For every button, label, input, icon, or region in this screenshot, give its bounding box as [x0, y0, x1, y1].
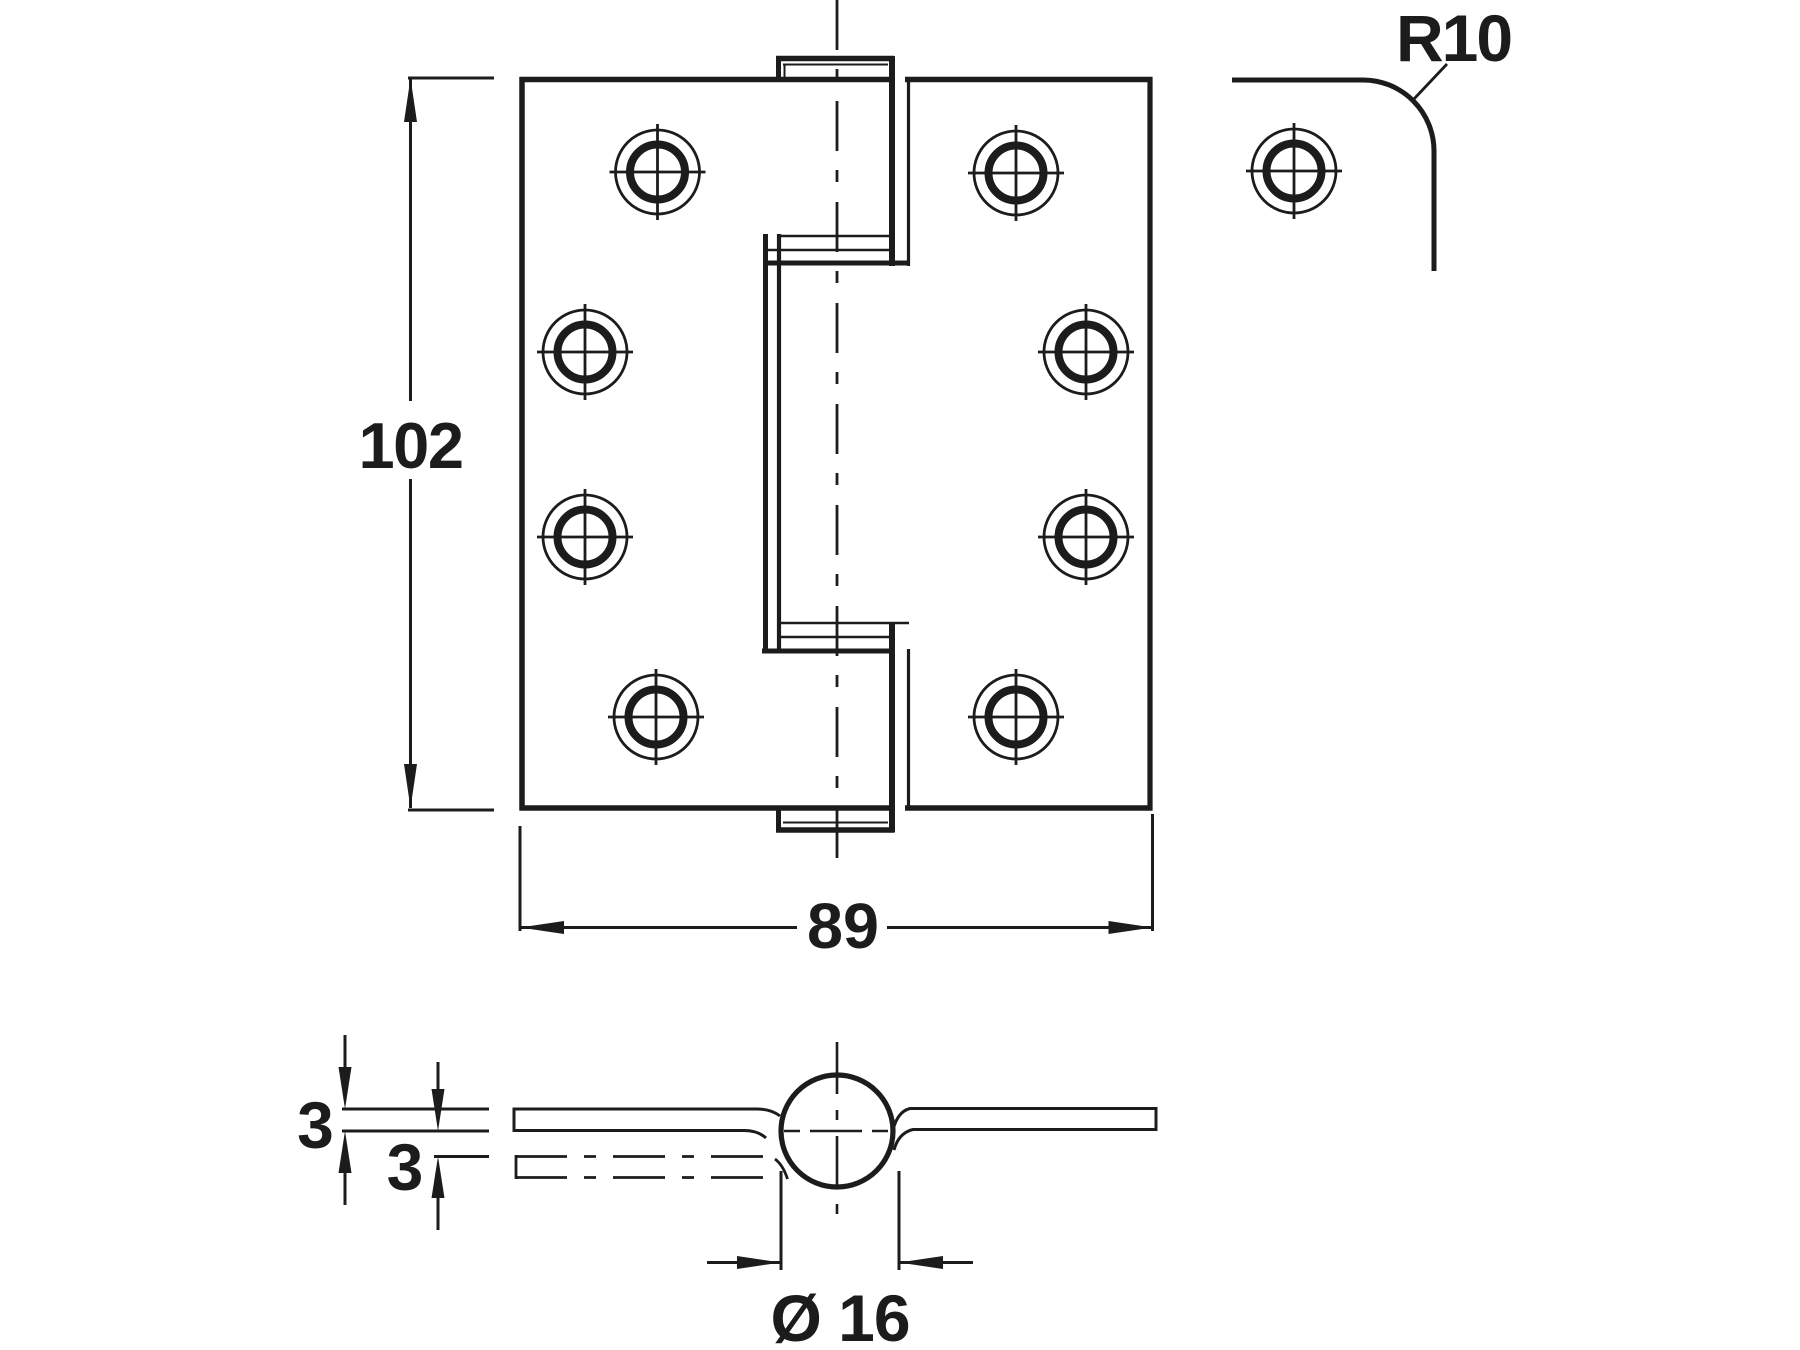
svg-text:89: 89 — [807, 890, 879, 962]
bottom knuckle right edge (thick vertical) — [889, 623, 895, 833]
phantom leaf curl curve — [775, 1159, 788, 1179]
dimension 102 arrowhead up — [404, 78, 417, 122]
top step joint line 1 — [779, 235, 891, 238]
screw hole B1 (left upper-middle) — [537, 304, 633, 400]
bottom knuckle tab left edge — [776, 806, 781, 833]
screw hole A1 (left top) — [610, 124, 706, 220]
svg-text:3: 3 — [387, 1130, 424, 1204]
dimension 3 upper: bottom arrowhead — [339, 1131, 352, 1173]
middle knuckle inner edge — [777, 234, 781, 653]
dimension 102 bottom extension line — [408, 809, 494, 812]
left leaf plate bottom edge — [520, 805, 895, 811]
dimension 102 arrowhead down — [404, 764, 417, 808]
dimension 3 upper: top arrowhead — [339, 1067, 352, 1109]
dimension 89 arrowhead right — [1109, 921, 1153, 934]
section view right leaf bar — [892, 1109, 1157, 1151]
middle knuckle outer edge — [763, 234, 768, 653]
dimension 89 line left segment — [520, 926, 797, 929]
screw hole A2 (right top) — [968, 125, 1064, 221]
bottom step joint line 2 — [777, 636, 891, 639]
dimension 89 left extension line — [519, 826, 522, 931]
hinge pin centerline (vertical dash-dot) — [836, 0, 839, 859]
bottom knuckle inner fold line — [783, 822, 888, 824]
bottom step joint line 3 (thick) — [762, 649, 892, 654]
dimension Ø16 left arrowhead — [737, 1256, 781, 1269]
dimension 89 line right segment — [887, 926, 1153, 929]
R10 corner detail edge with radius — [1232, 80, 1434, 271]
dimension 89 right extension line — [1151, 814, 1154, 931]
screw hole C2 (right lower-middle) — [1038, 489, 1134, 585]
svg-text:R10: R10 — [1396, 1, 1511, 75]
phantom leaf left cap — [515, 1155, 518, 1179]
phantom leaf top edge (dash-dot) — [515, 1155, 771, 1158]
dimension Ø16 left extension line — [780, 1171, 783, 1270]
section view barrel circle — [781, 1075, 893, 1187]
screw hole D2 (right bottom) — [968, 669, 1064, 765]
right leaf plate top edge — [905, 77, 1153, 83]
dimension 3 lower: top arrowhead — [432, 1089, 445, 1131]
right leaf plate right edge — [1147, 77, 1152, 811]
dimension 3 upper: extension line at bar top — [342, 1108, 489, 1111]
dimension 102 line lower segment — [409, 479, 412, 808]
dimension 3 upper: top arrow shaft — [344, 1035, 347, 1068]
dimension 3 upper: extension line at bar bottom — [342, 1130, 489, 1133]
section view barrel vertical centerline — [836, 1042, 839, 1228]
top knuckle inner fold line vertical — [784, 64, 786, 81]
R10 detail screw hole — [1246, 123, 1342, 219]
dimension Ø16 right arrowhead — [899, 1256, 943, 1269]
section view barrel horizontal dashed centerline — [784, 1130, 888, 1133]
dimension Ø16 right arrow line — [899, 1261, 973, 1264]
top knuckle tab top edge — [776, 56, 894, 62]
dimension 3 upper: bottom arrow shaft — [344, 1172, 347, 1205]
section view left leaf bar — [514, 1109, 780, 1138]
screw hole C1 (left lower-middle) — [537, 489, 633, 585]
dimension 3 lower: extension line at phantom top — [434, 1155, 489, 1158]
top step joint line 3 (thick) — [764, 261, 909, 266]
top knuckle inner fold line horizontal — [783, 64, 888, 66]
screw hole D1 (left bottom) — [608, 669, 704, 765]
dimension 89 arrowhead left — [520, 921, 564, 934]
dimension 102 top extension line — [408, 77, 494, 80]
bottom knuckle tab bottom edge — [776, 827, 894, 833]
right leaf left edge lower segment — [907, 649, 910, 810]
dimension 102 line upper segment — [409, 78, 412, 401]
left leaf plate left edge — [519, 77, 525, 811]
top knuckle right edge (thick vertical) — [889, 56, 895, 266]
right leaf left edge upper segment — [907, 79, 910, 266]
bottom step joint line 1 — [778, 622, 909, 625]
top knuckle tab left edge — [776, 56, 781, 80]
dimension Ø16 right extension line — [898, 1171, 901, 1270]
right leaf plate bottom edge — [905, 805, 1153, 811]
svg-text:Ø 16: Ø 16 — [770, 1281, 909, 1350]
dimension Ø16 left arrow line — [707, 1261, 781, 1264]
dimension 3 lower: bottom arrowhead — [432, 1157, 445, 1199]
phantom leaf bottom edge (dash-dot) — [515, 1176, 771, 1179]
left leaf plate top edge — [520, 77, 895, 83]
svg-text:102: 102 — [359, 409, 463, 482]
R10 leader line — [1413, 64, 1447, 100]
screw hole B2 (right upper-middle) — [1038, 304, 1134, 400]
top step joint line 2 — [768, 249, 891, 252]
dimension 3 lower: top arrow shaft — [437, 1062, 440, 1090]
dimension 3 lower: bottom arrow shaft — [437, 1197, 440, 1230]
svg-text:3: 3 — [297, 1088, 334, 1162]
